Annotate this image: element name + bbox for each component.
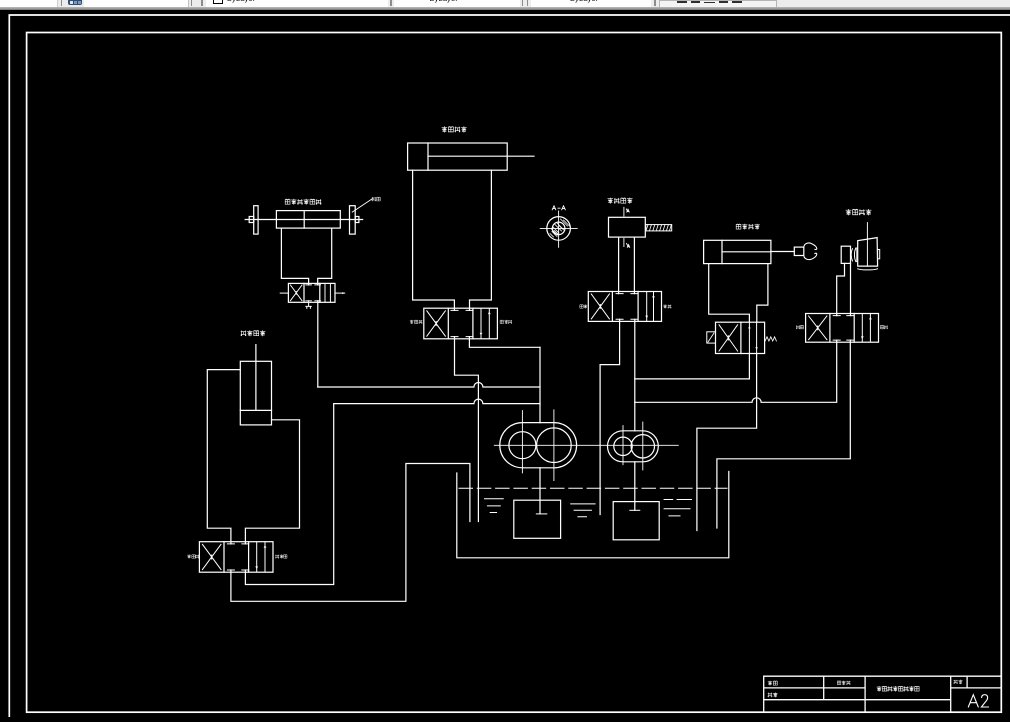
rotary actuator: wrist rotate (手腕回转) body [609, 217, 646, 237]
valve V4 solenoid label right [663, 304, 671, 308]
valve V5 body (4/2 solenoid-spring valve, finger clamp) [716, 322, 765, 353]
layers icon [68, 0, 82, 5]
pump P2 suction/discharge pipe [634, 319, 636, 510]
pump P1 envelope [500, 423, 577, 468]
wire: valve V3 return to tank dip [231, 464, 470, 602]
P-line A: pump P1 to traverse valve (with jump arc) [318, 383, 540, 388]
label: 滑台 (slide table) [372, 197, 381, 201]
title block text: 制图 [768, 681, 778, 686]
title block text: 比例 [954, 680, 963, 685]
arm-traverse through rod [245, 219, 362, 221]
valve V6 body (4/3 solenoid valve, arm rotate) [806, 314, 879, 343]
wires: arm-rotate motor to valve V6 [837, 263, 851, 315]
A-A section outer circle [547, 217, 571, 241]
title block outline [764, 676, 1002, 712]
arm-lift piston [240, 409, 271, 411]
arm-rotate motor base line [858, 269, 878, 270]
fluid level symbol 3 [664, 500, 691, 516]
fluid level symbol 1 [485, 499, 504, 513]
arm-rotate motor left block [841, 246, 850, 263]
pump P2 gear circle left [614, 437, 632, 455]
pump P2 vertical centerlines [623, 422, 643, 470]
valve V3 port ticks [227, 544, 249, 570]
valve V1 port ticks [451, 310, 473, 336]
valve V2 left actuator tab [280, 292, 288, 294]
cylinder arm-extend rod [428, 155, 534, 157]
wire: valve V3 pressure to P-line B [245, 404, 333, 585]
P-line C: pump P2 to arm-rotate valve (with jump arc) [635, 340, 837, 402]
wire: valve V5 return to tank [697, 354, 757, 531]
wire: arm-extend cyl right port to valve V1 port B [470, 170, 492, 310]
toolbar strip (clipped AutoCAD property bars) [0, 0, 1010, 7]
label: 手臂伸缩 (arm extend) [442, 126, 467, 132]
P-line B: pump P1 to lift valve (with jump arc) [334, 399, 540, 404]
valve V6 parallel flow lines [862, 314, 870, 341]
finger-clamp rod inside [722, 251, 771, 253]
section cut mark A (bottom) [624, 239, 628, 247]
arm-traverse right rod nut [355, 217, 359, 223]
A-A section view crosshair [540, 211, 577, 247]
valve V6 crossed-flow X [809, 316, 827, 340]
valve V6 solenoid label left [796, 325, 803, 329]
label: 手臂横向移动 (arm traverse) [285, 199, 321, 205]
tank filter/strainer box 2 [613, 502, 659, 540]
valve V3 parallel flow lines [257, 543, 265, 572]
pump P2 envelope [608, 431, 659, 462]
valve V5 crossed-flow X [719, 325, 738, 351]
gripper base square [794, 247, 804, 255]
finger-clamp piston divider [721, 240, 723, 263]
wires: wrist actuator down to valve V4 [619, 237, 635, 294]
valve V1 body (4/3 solenoid valve, arm extend) [424, 308, 498, 339]
arm-traverse right end plate [350, 206, 356, 234]
valve V4 crossed-flow X [591, 294, 609, 319]
title block text: 有效果 [837, 681, 850, 686]
wire: valve V1 return to tank dip [455, 337, 479, 522]
wire: lift cyl bottom port to valve V3 [245, 420, 299, 544]
valve V2 right actuator tab [335, 292, 345, 294]
title block text: 审核 [768, 692, 778, 697]
wire: valve V4 return to tank [600, 319, 620, 514]
label: 手臂回转 (arm rotate) [846, 209, 872, 215]
label: 手臂升降 (arm lift) [241, 330, 266, 336]
pump P1 discharge pipe [539, 347, 541, 514]
pump P1/P2 horizontal centerline [494, 444, 678, 446]
cylinder: arm extend (手臂伸缩) barrel [408, 143, 508, 170]
tank fluid level dashed line [459, 487, 727, 489]
filter1 pipe end tick [536, 513, 547, 515]
arm-rotate motor coupling arcs [851, 248, 857, 262]
title block text: 机械手液压系统图 [877, 686, 920, 692]
valve V2 body (4/3 valve, arm traverse) [288, 283, 335, 302]
valve V2 parallel flow lines [325, 284, 330, 301]
arm-rotate motor right tick [878, 250, 880, 259]
pump P1 gear circle left [509, 432, 536, 459]
label: 手指夹紧 (finger clamp) [736, 224, 760, 230]
filter2 pipe end tick [630, 509, 640, 511]
rotary actuator: arm rotate (手臂回转) centerline [866, 223, 868, 267]
valve V1 parallel flow lines (right box) [481, 309, 489, 338]
leader line to slide-table label [352, 199, 372, 212]
arm-traverse left end plate [254, 206, 258, 234]
valve V1 crossed-flow X (left box) [427, 311, 446, 336]
valve V2 port ticks [306, 285, 321, 301]
wire: valve V5 pressure from pump P2 [635, 354, 750, 379]
arm-lift rod [255, 345, 257, 411]
wrist-rotate shaft hatched [646, 225, 672, 231]
valve V6 port ticks [833, 316, 854, 341]
A-A section hatching [550, 219, 570, 237]
valve V4 parallel flow lines [647, 292, 654, 320]
wire: valve V1 pressure from pump P1 [469, 337, 540, 348]
cylinder: arm traverse (手臂横向移动) barrel [276, 211, 340, 229]
fluid level symbol 2 [571, 504, 595, 517]
gripper claw [804, 243, 817, 260]
pump P1 gear circle right [537, 428, 572, 463]
arm-traverse left rod nut [249, 217, 254, 223]
valve V2 crossed-flow X [290, 285, 302, 301]
wire: lift cyl top port to valve V3 [207, 370, 240, 544]
valve V3 crossed-flow X [202, 544, 221, 569]
valve V5 straight flow lines [749, 322, 756, 353]
valve V6 solenoid label right [880, 325, 887, 329]
finger-clamp rod to gripper [771, 251, 794, 253]
valve V3 body (4/3 solenoid valve, arm lift) [199, 542, 273, 573]
A-A section inner circle [552, 222, 565, 235]
valve V1 solenoid label left [410, 320, 423, 324]
pump P2 gear circle right [631, 435, 654, 458]
arm-rotate motor body [858, 238, 878, 267]
wire: traverse cyl left port down to valve V2 [281, 228, 308, 285]
cylinder arm-extend piston [427, 143, 429, 170]
valve V4 port ticks [616, 294, 638, 320]
valve V2 drain symbol [306, 301, 311, 309]
wire: valve V6 return to tank [717, 340, 850, 528]
wire: traverse cyl right port down to valve V2 [318, 228, 332, 285]
tank filter/strainer box 1 [514, 500, 561, 538]
wire: arm-extend cyl left port to valve V1 port A [413, 170, 455, 310]
pump P1 vertical centerlines [522, 410, 554, 481]
title block text: A2 [968, 695, 988, 707]
valve V5 return spring [765, 337, 776, 341]
cylinder: arm lift (手臂升降) barrel [240, 361, 271, 425]
label: 手腕回转 (wrist rotate) [608, 198, 633, 204]
arm-traverse piston divider [303, 211, 305, 229]
label: A section marks [627, 209, 630, 248]
valve V5 solenoid box [707, 332, 716, 343]
valve V4 solenoid label left [580, 304, 587, 308]
wire: valve V2 port B down to P-line A [317, 301, 319, 387]
valve V3 solenoid label right [275, 554, 287, 558]
wire: clamp cyl left port to valve V5 [709, 264, 750, 323]
section cut mark A (top) [624, 207, 628, 216]
cylinder: finger clamp (手指夹紧) barrel [704, 240, 771, 263]
valve V1 solenoid label right [500, 320, 512, 324]
valve V3 solenoid label left [187, 554, 199, 558]
wire: clamp cyl right port to valve V5 [757, 264, 768, 323]
valve V4 body (4/3 solenoid valve, wrist rotate) [588, 292, 661, 322]
oil tank walls [457, 472, 729, 558]
label: A-A [552, 206, 566, 210]
